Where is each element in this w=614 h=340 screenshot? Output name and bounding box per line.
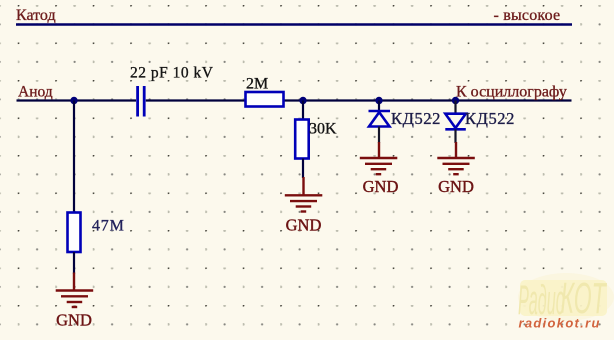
capacitor C1 plates bbox=[138, 86, 145, 117]
svg-text:КД522: КД522 bbox=[391, 109, 441, 128]
svg-text:30K: 30K bbox=[309, 121, 337, 138]
svg-text:- высокое: - высокое bbox=[494, 7, 561, 24]
watermark text "КОТ" bbox=[561, 275, 608, 323]
ground symbol GND3 (under D1) bbox=[360, 142, 398, 174]
svg-text:47M: 47M bbox=[92, 218, 125, 235]
wire: main anode line, left segment bbox=[17, 99, 137, 101]
ground symbol GND1 (under 47M) bbox=[56, 273, 93, 308]
node junction J2 (to 30K) bbox=[299, 97, 306, 104]
wire: J3 down to diode D1 bbox=[378, 101, 380, 111]
node junction J1 (anode to 47M) bbox=[70, 97, 77, 104]
svg-text:2M: 2M bbox=[246, 76, 268, 93]
svg-text:GND: GND bbox=[56, 311, 92, 330]
svg-text:GND: GND bbox=[286, 216, 322, 235]
resistor 2M body bbox=[246, 92, 284, 107]
watermark logo badge bbox=[520, 280, 607, 316]
wire: J1 down to resistor 47M bbox=[73, 101, 75, 213]
watermark text "Радио" bbox=[518, 276, 565, 323]
svg-text:radiokot.ru: radiokot.ru bbox=[519, 316, 601, 331]
wire: 30K down to ground bbox=[302, 159, 304, 179]
diode D1 КД522 (cathode up) bbox=[369, 111, 391, 127]
wire: main anode line, right segment bbox=[146, 99, 572, 101]
wire: D2 down to ground bbox=[454, 129, 456, 143]
wire: top high-voltage (cathode) line bbox=[16, 23, 572, 26]
svg-text:КД522: КД522 bbox=[465, 109, 515, 128]
svg-text:К осциллографу: К осциллографу bbox=[456, 84, 567, 101]
node junction J4 (to diode D2) bbox=[452, 97, 459, 104]
svg-text:Анод: Анод bbox=[18, 84, 53, 101]
wire: D1 down to ground bbox=[378, 127, 380, 144]
wire: 47M down to ground bbox=[73, 252, 75, 274]
resistor 47M body bbox=[68, 213, 81, 253]
ground symbol GND4 (under D2) bbox=[437, 142, 475, 174]
svg-text:22 pF 10 kV: 22 pF 10 kV bbox=[130, 65, 214, 82]
node junction J3 (to diode D1) bbox=[375, 97, 382, 104]
svg-text:GND: GND bbox=[363, 177, 399, 196]
wire: J4 down to diode D2 bbox=[454, 101, 456, 115]
svg-text:GND: GND bbox=[438, 177, 474, 196]
svg-text:Катод: Катод bbox=[16, 7, 56, 24]
diode D2 КД522 (cathode down) bbox=[445, 114, 466, 130]
wire: J2 down to resistor 30K bbox=[302, 101, 304, 121]
resistor 30K body bbox=[295, 120, 309, 159]
ground symbol GND2 (under 30K) bbox=[285, 177, 323, 212]
